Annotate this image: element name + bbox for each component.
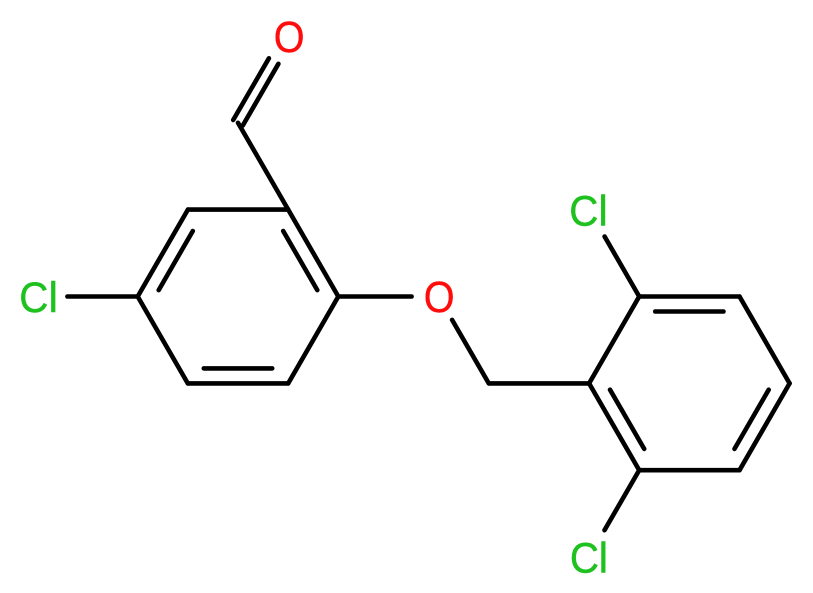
bond C7-C1: [238, 123, 288, 210]
right ring bond C12-C13: [740, 383, 790, 470]
svg-text:C: C: [19, 273, 48, 321]
bond C10-Cl2: [605, 237, 640, 297]
bond C14-Cl3: [605, 470, 640, 530]
right ring bond C14-C9: [589, 383, 639, 470]
right ring inner double C12=C13: [735, 390, 769, 449]
left ring bond C3-C4: [188, 381, 288, 386]
right ring bond C13-C14: [639, 468, 739, 473]
right ring inner double C10=C11: [655, 309, 723, 314]
right ring inner double C14=C9: [610, 390, 644, 449]
svg-text:l: l: [598, 188, 607, 235]
left ring bond C5-C6: [138, 210, 188, 297]
svg-text:O: O: [424, 272, 455, 321]
svg-text:C: C: [569, 186, 598, 234]
bond C7=O1 line b: [233, 58, 269, 120]
bond C7=O1 line a: [243, 64, 279, 126]
right ring bond C11-C12: [740, 297, 790, 384]
right ring bond C9-C10: [589, 297, 639, 384]
left ring inner double C3=C4: [204, 366, 272, 371]
svg-text:l: l: [599, 536, 608, 583]
left ring bond C2-C3: [288, 297, 338, 384]
left ring bond C4-C5: [138, 297, 188, 384]
bond C2-O2: [338, 294, 411, 299]
left ring inner double C1=C2: [283, 231, 317, 290]
bond C8-C9: [489, 381, 589, 386]
left ring inner double C5=C6: [159, 231, 193, 290]
bond C5-Cl1: [67, 294, 137, 299]
svg-text:O: O: [274, 12, 305, 61]
svg-text:l: l: [48, 275, 57, 322]
left ring bond C1-C2: [288, 210, 338, 297]
svg-text:C: C: [570, 534, 599, 582]
right ring bond C10-C11: [639, 294, 739, 299]
left ring bond C6-C1: [188, 207, 288, 212]
bond O2-C8: [452, 320, 489, 384]
